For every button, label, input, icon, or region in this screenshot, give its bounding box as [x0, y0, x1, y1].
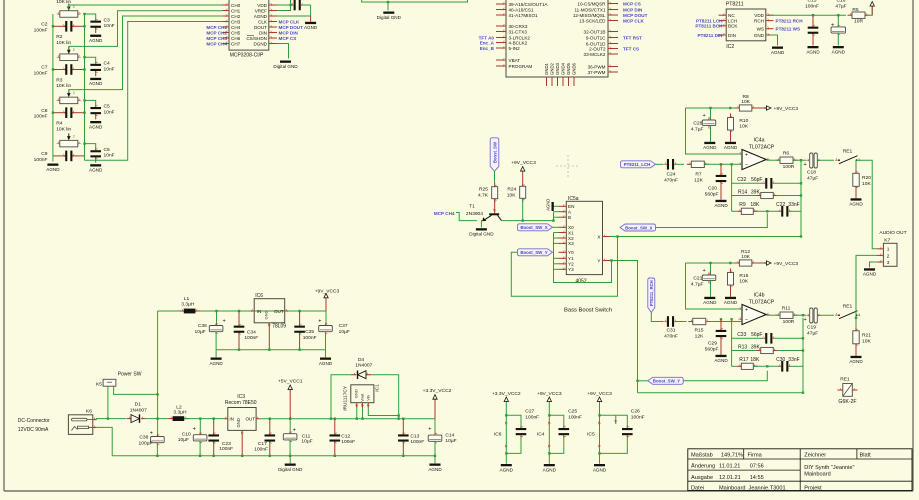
svg-text:R17: R17 [739, 357, 748, 363]
svg-text:10K: 10K [741, 99, 750, 105]
net label PT8211 WS [776, 27, 801, 32]
svg-text:IN: IN [257, 309, 262, 314]
capacitor C33 56pF [762, 333, 775, 344]
svg-text:TL072ACP: TL072ACP [749, 144, 775, 150]
svg-text:VREF: VREF [255, 8, 267, 13]
wire C38 bottom [156, 443, 158, 456]
svg-text:MCP DOUT: MCP DOUT [623, 13, 648, 18]
svg-text:AGND: AGND [89, 81, 103, 86]
svg-text:AGND: AGND [849, 359, 863, 364]
svg-text:12-MISO/MQSL: 12-MISO/MQSL [573, 13, 606, 18]
ground AGND at IC2 [771, 47, 785, 55]
svg-text:C13: C13 [410, 433, 419, 439]
wire IC5 top stub [600, 415, 628, 428]
wire C16 leads [837, 15, 839, 27]
net label MCP CH1 [206, 25, 227, 30]
capacitor C37 10uF [318, 319, 332, 336]
svg-text:C32: C32 [737, 177, 746, 183]
net flag PT8211_LCH [621, 161, 656, 168]
capacitor C21 4.7uF [702, 268, 716, 284]
wire C32 row [732, 182, 763, 184]
svg-text:10nF: 10nF [104, 153, 115, 159]
svg-text:OUT: OUT [245, 417, 255, 422]
svg-text:3.3µH: 3.3µH [181, 302, 195, 308]
svg-text:100nF: 100nF [254, 446, 268, 452]
wire C30 right [789, 365, 803, 367]
svg-text:−: − [745, 163, 748, 169]
svg-text:13-SCK/LED: 13-SCK/LED [579, 18, 606, 23]
ground AGND under C16 [832, 46, 846, 54]
wire IC4a top rail [686, 107, 758, 109]
capacitor C1 at MCP VDD [291, 0, 304, 10]
capacitor C13 100nF [398, 419, 409, 456]
wire R20 drop [855, 160, 857, 169]
wire C22 right [789, 210, 801, 212]
svg-text:Vin: Vin [365, 395, 370, 401]
label R17 [739, 357, 760, 363]
label C6 [104, 147, 115, 159]
inductor L2 3.3uH [168, 416, 189, 421]
label C11 [301, 433, 312, 444]
svg-text:+: + [745, 153, 748, 159]
svg-text:GND: GND [754, 33, 765, 38]
wire C21 top lead [710, 263, 712, 275]
net label MCP CLK at MCP [279, 19, 301, 24]
svg-text:100R: 100R [783, 164, 795, 170]
wire X0 flag stub [553, 226, 559, 228]
net label PT8211 RCH [776, 18, 804, 23]
net label MCP DIN at MCP [279, 30, 299, 35]
ground Digital GND at T1 [469, 228, 494, 236]
svg-text:OUT: OUT [274, 309, 284, 314]
label C2 [34, 22, 48, 34]
svg-text:10K: 10K [739, 279, 748, 285]
svg-text:10nF: 10nF [104, 23, 115, 29]
capacitor C19 47uF [804, 308, 821, 323]
label C36 [195, 323, 208, 335]
svg-text:100nF: 100nF [219, 446, 233, 452]
svg-text:C22: C22 [776, 202, 785, 208]
svg-text:DGND: DGND [253, 41, 267, 46]
capacitor C28 4.7uF [702, 113, 716, 129]
wire R out to C [793, 159, 806, 161]
resistor R15 12K [688, 318, 710, 324]
svg-text:3: 3 [887, 260, 890, 266]
resistor R8 10K [735, 105, 757, 111]
capacitor C8 100nF [53, 107, 85, 118]
svg-text:AGND: AGND [543, 467, 557, 472]
net label MCP CH2 [206, 30, 227, 35]
label RE1 IC4a [843, 148, 853, 154]
wire right relay to K7 [856, 255, 877, 317]
label C3 [104, 17, 115, 29]
svg-text:R20: R20 [862, 175, 871, 181]
svg-text:560pF: 560pF [705, 191, 719, 197]
svg-text:L1: L1 [184, 296, 190, 302]
wire IC4a fb bus [731, 164, 733, 211]
wire MCP CH4 to base [456, 213, 477, 221]
svg-text:Digital GND: Digital GND [469, 232, 494, 237]
resistor R25 4.7K [492, 183, 498, 203]
svg-text:07:56: 07:56 [750, 464, 764, 470]
svg-text:C30: C30 [776, 357, 785, 363]
net flag Boost_SW vertical [490, 138, 499, 172]
label R12 [741, 249, 751, 260]
svg-text:R21: R21 [862, 333, 871, 339]
junction IC4a minus row [720, 163, 733, 165]
svg-text:100nF: 100nF [34, 71, 48, 77]
label R13 [738, 344, 760, 350]
svg-text:10µF: 10µF [445, 438, 456, 444]
op-amp IC1 IRU1117CY regulator [342, 384, 380, 411]
net label TFT CS right [623, 46, 639, 51]
label C7 [34, 65, 48, 77]
svg-text:IC5: IC5 [587, 431, 595, 437]
wire MCP DGND [277, 44, 289, 59]
svg-text:T1: T1 [469, 203, 475, 209]
power +9V_VCC3 top [315, 289, 340, 312]
ground AGND at K7 [863, 268, 877, 276]
svg-text:Mainboard_Jeannie.T3001: Mainboard_Jeannie.T3001 [719, 485, 786, 491]
svg-text:+: + [804, 162, 807, 168]
svg-text:CH2: CH2 [231, 14, 241, 19]
junction 5V rail [269, 418, 405, 420]
svg-text:+: + [223, 319, 226, 325]
svg-text:NC: NC [728, 13, 735, 18]
svg-text:+9V_VCC3: +9V_VCC3 [511, 160, 536, 166]
op-amp IC4b TL072ACP [738, 305, 769, 325]
capacitor C3 10nF [90, 18, 101, 33]
capacitor C38 100uF [150, 430, 164, 446]
op-amp U MCP3208 ADC IC [223, 0, 278, 59]
svg-text:37-PWM: 37-PWM [588, 70, 606, 75]
svg-text:10nF: 10nF [104, 66, 115, 72]
svg-text:3.3µH: 3.3µH [173, 409, 187, 415]
potentiometer R2 [57, 47, 81, 61]
svg-text:AGND: AGND [593, 467, 607, 472]
svg-text:41-A17MISO1: 41-A17MISO1 [509, 13, 539, 18]
svg-text:GND: GND [236, 418, 241, 427]
svg-text:2: 2 [73, 134, 75, 138]
wire IC1 Vout pin [362, 408, 364, 419]
wire C11 bottom [289, 440, 291, 456]
svg-text:C24: C24 [667, 172, 676, 178]
label C12 [341, 433, 355, 444]
svg-text:560pF: 560pF [705, 346, 719, 352]
svg-text:+5V_VCC1: +5V_VCC1 [278, 379, 303, 385]
svg-text:DC-Connector: DC-Connector [18, 418, 50, 424]
label C14 [445, 432, 456, 444]
svg-text:C20: C20 [708, 186, 717, 192]
svg-text:+: + [745, 308, 748, 314]
svg-text:100nF: 100nF [34, 114, 48, 120]
svg-text:TFT RST: TFT RST [623, 35, 642, 40]
svg-text:R7: R7 [695, 172, 702, 178]
ground Digital GND at MCP [273, 61, 298, 69]
label R2 10K lin [56, 34, 71, 46]
ground AGND under C4 [89, 78, 103, 86]
svg-text:10µF: 10µF [339, 329, 350, 335]
svg-text:CLK: CLK [258, 19, 268, 24]
svg-text:DOUT: DOUT [254, 25, 267, 30]
svg-text:R6: R6 [783, 150, 790, 156]
capacitor C34 100nF [234, 311, 245, 350]
label RE1 IC4b [843, 303, 853, 309]
wire pot row to C4 [85, 57, 96, 64]
label R25 [478, 187, 489, 199]
svg-text:MCP DOUT: MCP DOUT [279, 25, 304, 30]
wire X1-Y3 bus [554, 232, 559, 234]
ground AGND under IC5 [593, 464, 607, 472]
svg-text:CH5: CH5 [231, 30, 241, 35]
svg-text:AGND: AGND [254, 14, 268, 19]
wire R out to C [793, 314, 806, 316]
wire left relay out [857, 160, 877, 249]
label C4 [104, 61, 115, 73]
wire DigGND stem [289, 456, 291, 464]
capacitor C18 47uF [804, 153, 821, 168]
power +9V_VCC3 at IC5 [587, 391, 612, 402]
svg-text:X2: X2 [568, 236, 574, 241]
svg-text:GND6: GND6 [572, 62, 577, 75]
net label PT8211 DIN [697, 33, 723, 38]
label C34 [244, 330, 258, 342]
svg-text:IC6: IC6 [494, 431, 502, 437]
svg-text:R24: R24 [507, 187, 516, 193]
pin marks IC5 [598, 421, 601, 447]
svg-text:AGND: AGND [209, 361, 223, 366]
ground AGND under IC6 [500, 464, 514, 472]
svg-text:+: + [150, 430, 153, 436]
wire 4052 stub y258.3 [554, 257, 559, 259]
svg-text:Power SW: Power SW [118, 371, 142, 377]
svg-text:10µF: 10µF [301, 439, 312, 445]
wire C10 leads [199, 419, 201, 435]
svg-text:10K lin: 10K lin [56, 83, 71, 89]
transistor T1 2N3904 [482, 199, 501, 222]
label C20 [705, 186, 719, 198]
svg-text:10nF: 10nF [104, 110, 115, 116]
net flag Boost_SW_Y left [518, 249, 553, 256]
wire D1 to L2 [146, 418, 169, 420]
svg-text:AGND: AGND [714, 203, 728, 208]
svg-text:4-BCLK2: 4-BCLK2 [509, 40, 528, 45]
svg-text:VBAT: VBAT [509, 58, 521, 63]
wire R13 row [732, 350, 757, 352]
label C23 [219, 441, 233, 452]
junction gnd rail [156, 455, 436, 457]
capacitor C36 10uF [209, 319, 225, 336]
svg-text:PT8211 DIN: PT8211 DIN [697, 33, 723, 38]
svg-text:100nF: 100nF [34, 27, 48, 33]
svg-text:149,71%: 149,71% [721, 452, 743, 458]
junction IC4 loop [548, 414, 550, 455]
wire C10 bottom [199, 441, 201, 456]
capacitor C27 100nF [516, 425, 527, 438]
svg-text:R2: R2 [56, 34, 63, 40]
net label MCP CS at MCP [279, 36, 297, 41]
svg-text:12VDC 90mA: 12VDC 90mA [18, 427, 49, 433]
svg-text:MCP CH2: MCP CH2 [206, 30, 227, 35]
svg-text:+9V_VCC3: +9V_VCC3 [537, 391, 562, 397]
wire Y output [610, 261, 638, 393]
capacitor C31 470nF [664, 316, 677, 327]
svg-text:K5: K5 [96, 382, 102, 388]
svg-text:MCP CLK: MCP CLK [279, 19, 301, 24]
svg-text:AGND: AGND [806, 49, 820, 54]
svg-text:33nF: 33nF [788, 202, 799, 208]
svg-text:C31: C31 [667, 328, 676, 334]
junction Y flag [636, 380, 638, 382]
svg-text:Enc_B: Enc_B [480, 46, 495, 51]
wire Boost_SW_X to fb [656, 213, 768, 227]
label C13 [410, 433, 424, 444]
svg-text:BCK: BCK [728, 24, 738, 29]
resistor R9 18K [737, 208, 758, 214]
svg-text:R5: R5 [852, 7, 859, 13]
svg-text:Ausgabe: Ausgabe [691, 475, 713, 481]
svg-text:D1: D1 [135, 402, 142, 408]
label C27 [525, 409, 539, 421]
wire 12V rail [97, 419, 127, 420]
svg-text:GND5: GND5 [566, 62, 571, 75]
junction Y row [610, 259, 804, 394]
svg-text:+: + [428, 427, 431, 433]
wire Y vert to flag [638, 380, 648, 382]
net label MCP DOUT right [623, 13, 648, 18]
svg-text:X3: X3 [568, 241, 574, 246]
wire 9V gnd rail [216, 349, 325, 351]
svg-text:MCP CS: MCP CS [279, 36, 297, 41]
svg-text:4052: 4052 [576, 279, 587, 285]
wire R24 to collector [522, 198, 524, 220]
wire IC1 GND pin [356, 408, 358, 419]
label R1 10K lin partial [56, 0, 71, 5]
junction IC4b fb [766, 337, 804, 367]
svg-text:100nF: 100nF [303, 335, 317, 341]
svg-text:36-PWM: 36-PWM [588, 64, 606, 69]
svg-text:10K: 10K [862, 181, 871, 187]
svg-text:PT8211 BCK: PT8211 BCK [695, 24, 723, 29]
svg-text:11.01.21: 11.01.21 [719, 464, 740, 470]
wire AGND stem C36 [215, 350, 217, 358]
svg-text:PT8211 RCH: PT8211 RCH [776, 18, 804, 23]
svg-text:CH7: CH7 [231, 41, 241, 46]
svg-text:+: + [703, 268, 706, 274]
power +5V_VCC1 [278, 379, 303, 419]
op-amp IC3 Recom 78E50 regulator [224, 394, 259, 455]
wire R3 wiper to MCP CH2 [69, 16, 223, 94]
label R3 10K lin [56, 77, 71, 89]
label C30 [776, 357, 800, 363]
svg-text:C5: C5 [104, 104, 111, 110]
relay contact RE1 IC4a [835, 156, 861, 164]
capacitor C7 100nF [53, 64, 85, 75]
wire top net [362, 0, 468, 2]
svg-text:C4: C4 [104, 61, 111, 67]
svg-text:Datei: Datei [691, 485, 704, 491]
wire EN to AGND [554, 205, 559, 207]
svg-text:10K: 10K [741, 254, 750, 260]
junction Vin [398, 414, 400, 416]
label C29 [705, 341, 719, 353]
svg-text:5-IN2: 5-IN2 [509, 46, 521, 51]
label R21 [862, 333, 871, 345]
label C38 [139, 435, 153, 447]
svg-text:Boost_SW_Y: Boost_SW_Y [653, 379, 680, 384]
wire 9V rail [158, 310, 326, 312]
power +9V_VCC3 at R24 [511, 160, 536, 182]
svg-text:CH6: CH6 [231, 36, 241, 41]
svg-text:10K: 10K [739, 124, 748, 130]
wire MCP VDD to C1 [277, 4, 293, 6]
svg-text:MCP DIN: MCP DIN [279, 30, 299, 35]
ground AGND under C6 [89, 164, 103, 172]
svg-text:+: + [193, 427, 196, 433]
svg-text:RE1: RE1 [840, 377, 850, 383]
svg-text:Y1: Y1 [568, 256, 574, 261]
svg-text:2: 2 [887, 253, 890, 259]
wire 4052 stub y238 [554, 237, 559, 239]
svg-text:R10: R10 [739, 118, 748, 124]
wire AGND stem C14 [434, 456, 436, 464]
label C19 [807, 325, 818, 337]
svg-text:C19: C19 [807, 325, 816, 331]
junction RE1b out [855, 317, 857, 319]
net label Enc_B [480, 46, 495, 51]
wire R15 to minus [706, 321, 742, 323]
wire IC6 top stub [506, 415, 521, 428]
wire IC4 agnd stem [548, 453, 550, 463]
svg-text:10µF: 10µF [195, 329, 206, 335]
label Bass Boost Switch [564, 308, 612, 314]
svg-text:R12: R12 [741, 249, 750, 255]
svg-text:AGND: AGND [714, 358, 728, 363]
wire 4052 stub y269.3 [554, 268, 559, 270]
wire collector row [502, 220, 554, 222]
label C37 [339, 323, 350, 335]
net label MCP CLK right [623, 18, 645, 23]
svg-text:31-CTX3: 31-CTX3 [509, 29, 528, 34]
svg-text:+: + [804, 317, 807, 323]
wire IC4b top rail [686, 262, 758, 264]
wire IC4 bypass loop [548, 402, 550, 453]
svg-text:39K: 39K [751, 344, 761, 350]
resistor R13 39K [756, 347, 778, 353]
wire R7 to minus [704, 163, 742, 165]
svg-text:Digital GND: Digital GND [377, 15, 402, 20]
ground AGND under C20 [714, 200, 728, 208]
junction K5 tap [107, 417, 109, 419]
wire C33 row [732, 337, 763, 339]
label R5 [852, 7, 863, 25]
label C31 [664, 328, 678, 340]
relay coil RE1 G6K-2F [838, 377, 858, 406]
label IC5 [587, 431, 595, 437]
svg-text:C29: C29 [708, 341, 717, 347]
label C22 [776, 202, 800, 208]
resistor R24 10K [520, 182, 526, 202]
svg-text:CH1: CH1 [231, 8, 241, 13]
wire R2 wiper to MCP CH1 [69, 11, 223, 51]
svg-text:100nF: 100nF [410, 439, 424, 445]
svg-text:4.7µF: 4.7µF [691, 127, 704, 133]
label D4 [355, 357, 372, 369]
svg-text:11-MOSI/CTX1: 11-MOSI/CTX1 [574, 7, 606, 12]
svg-text:IC2: IC2 [726, 44, 734, 50]
net label TFT A0 [479, 35, 495, 40]
pin mark IC5 extra [614, 415, 617, 424]
